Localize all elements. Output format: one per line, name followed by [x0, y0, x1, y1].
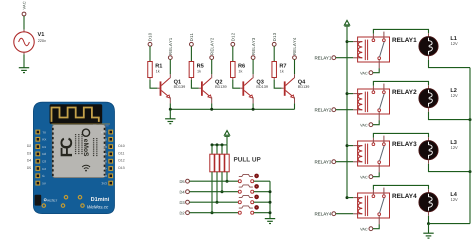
svg-text:BD139: BD139 [215, 85, 227, 89]
wire [189, 191, 238, 193]
junction [269, 190, 272, 193]
junction [346, 40, 349, 43]
svg-text:VAC: VAC [360, 123, 368, 127]
junction [469, 118, 472, 121]
junction [269, 211, 272, 214]
svg-text:D2: D2 [27, 144, 31, 148]
ground [19, 68, 29, 73]
wire collector [211, 60, 213, 75]
junction [169, 108, 172, 111]
wire [23, 54, 25, 67]
svg-text:VAC: VAC [360, 71, 368, 75]
svg-text:D13: D13 [272, 32, 277, 41]
wire [373, 172, 379, 176]
wire emitter [294, 103, 296, 109]
lamp L2 12V [419, 85, 458, 112]
wire [216, 172, 218, 202]
wire 12V bus [346, 27, 348, 198]
wire lamp return [429, 112, 471, 120]
power +V [224, 131, 229, 137]
lamp L1 12V [419, 33, 458, 60]
wire [254, 201, 270, 203]
svg-text:D3: D3 [42, 160, 46, 164]
wire [373, 68, 379, 72]
node RELAY1 terminal [168, 37, 173, 59]
svg-text:A0: A0 [103, 138, 107, 142]
resistor pack PULL UP [210, 145, 262, 172]
svg-text:RELAY1: RELAY1 [392, 37, 417, 44]
resistor R7 1k [272, 62, 287, 80]
svg-text:WeMos.cc: WeMos.cc [87, 204, 109, 209]
svg-text:D10: D10 [118, 144, 124, 148]
junction [469, 170, 472, 173]
wire coil+ [347, 145, 353, 147]
svg-text:D0: D0 [103, 145, 107, 149]
node D5 terminal [179, 179, 189, 184]
node D12 terminal [230, 32, 235, 46]
svg-text:1k: 1k [197, 70, 201, 74]
svg-text:3V3: 3V3 [101, 181, 107, 185]
junction [221, 190, 224, 193]
svg-text:D11: D11 [189, 33, 194, 42]
wire [429, 223, 471, 225]
junction [211, 211, 214, 214]
push button row D5 [238, 174, 259, 183]
lamp L3 12V [419, 137, 458, 164]
wire coil- [336, 161, 354, 163]
junction [211, 143, 214, 146]
svg-text:D5: D5 [179, 179, 185, 184]
svg-text:D12: D12 [230, 32, 235, 41]
junction [216, 201, 219, 204]
wire [221, 172, 223, 192]
svg-text:12V: 12V [451, 93, 458, 98]
node D4 terminal [179, 189, 189, 194]
junction [216, 143, 219, 146]
wire [226, 137, 228, 145]
wire switch to lamp [373, 29, 428, 33]
svg-text:12V: 12V [451, 41, 458, 46]
wire [149, 46, 151, 61]
wire switch to lamp [373, 81, 428, 85]
svg-text:VAC: VAC [360, 227, 368, 231]
board pin labels left D2-D5 [27, 144, 31, 170]
svg-text:D3: D3 [27, 151, 31, 155]
junction [346, 92, 349, 95]
push button row D3 [238, 195, 259, 204]
svg-text:BD139: BD139 [298, 85, 310, 89]
junction [252, 108, 255, 111]
node RELAY2 terminal [209, 37, 214, 59]
ground [265, 219, 275, 224]
svg-text:12V: 12V [451, 197, 458, 202]
svg-text:R1: R1 [155, 63, 162, 69]
resistor R1 1k [148, 62, 163, 80]
wire [254, 191, 270, 193]
svg-text:PULL UP: PULL UP [234, 156, 262, 163]
relay RELAY4 [353, 188, 417, 225]
node D3 terminal [179, 200, 189, 205]
wire switch to lamp [373, 185, 428, 189]
node RELAY2 terminal [314, 107, 335, 112]
svg-text:D2: D2 [42, 152, 46, 156]
svg-text:12V: 12V [451, 145, 458, 150]
svg-text:RELAY3: RELAY3 [251, 37, 256, 55]
svg-text:220v: 220v [38, 39, 46, 43]
svg-text:D4: D4 [27, 159, 31, 163]
svg-text:RELAY3: RELAY3 [392, 141, 417, 148]
junction [346, 196, 349, 199]
wire coil+ [347, 197, 353, 199]
wire coil- [336, 109, 354, 111]
svg-text:RX: RX [42, 138, 46, 142]
svg-text:RELAY2: RELAY2 [392, 89, 417, 96]
svg-text:D5: D5 [27, 166, 31, 170]
svg-text:RELAY1: RELAY1 [168, 37, 173, 55]
push button row D4 [238, 184, 259, 193]
node D13 terminal [272, 32, 277, 46]
ground [165, 119, 175, 124]
junction [346, 144, 349, 147]
node VAC terminal [360, 71, 373, 76]
wire [373, 224, 379, 228]
wire button bus [269, 181, 271, 218]
wire [189, 180, 238, 182]
svg-text:D8: D8 [103, 174, 107, 178]
svg-text:D7: D7 [103, 167, 107, 171]
svg-text:D3: D3 [179, 200, 185, 205]
svg-text:R7: R7 [279, 63, 286, 69]
wire base [150, 80, 157, 88]
wire [273, 46, 275, 61]
wire collector [294, 60, 296, 75]
push button row D2 [238, 205, 259, 214]
resistor R6 1k [231, 62, 246, 80]
junction [210, 108, 213, 111]
wire [169, 109, 171, 118]
svg-text:RELAY4: RELAY4 [292, 37, 297, 55]
svg-text:V1: V1 [38, 32, 45, 38]
wire [232, 46, 234, 61]
node D11 terminal [189, 33, 194, 47]
svg-text:D1: D1 [42, 145, 46, 149]
node RELAY3 terminal [314, 159, 335, 164]
wire base [274, 80, 281, 88]
svg-text:BD139: BD139 [174, 85, 186, 89]
wire [189, 212, 238, 214]
svg-text:RELAY4: RELAY4 [314, 211, 331, 216]
svg-text:RELAY1: RELAY1 [314, 55, 331, 60]
node RELAY4 terminal [314, 211, 335, 216]
svg-text:D4: D4 [179, 189, 185, 194]
svg-text:TX: TX [42, 130, 46, 134]
wire lamp return [429, 60, 471, 68]
svg-text:1k: 1k [156, 70, 160, 74]
wire emitter rail [170, 108, 294, 110]
wire coil+ [347, 93, 353, 95]
wire pullup tie [212, 144, 227, 146]
transistor Q1 BD139 [157, 74, 185, 103]
svg-text:D11: D11 [118, 151, 124, 155]
relay RELAY1 [353, 32, 417, 69]
svg-text:R6: R6 [238, 63, 245, 69]
wire [226, 172, 228, 181]
wire emitter [252, 103, 254, 109]
svg-text:FC: FC [58, 137, 76, 157]
WeMos D1 mini module board [33, 102, 114, 213]
wire base [233, 80, 240, 88]
wire collector [252, 60, 254, 75]
wire emitter [211, 103, 213, 109]
wire switch to lamp [373, 133, 428, 137]
wire lamp return [429, 164, 471, 172]
node D2 terminal [179, 210, 189, 215]
relay RELAY3 [353, 136, 417, 173]
wire emitter [169, 103, 171, 109]
svg-text:VAC: VAC [23, 1, 27, 9]
svg-text:D5: D5 [103, 152, 107, 156]
wire lamp return [428, 216, 430, 224]
junction [221, 143, 224, 146]
svg-text:D4: D4 [42, 167, 46, 171]
svg-text:D10: D10 [148, 32, 153, 41]
wire [254, 180, 270, 182]
wire [428, 224, 430, 233]
junction [226, 180, 229, 183]
relay RELAY2 [353, 84, 417, 121]
wire base [191, 80, 198, 88]
svg-text:1k: 1k [280, 70, 284, 74]
transistor Q3 BD139 [240, 74, 268, 103]
wire [254, 212, 270, 214]
svg-text:D6: D6 [103, 160, 107, 164]
junction [269, 201, 272, 204]
svg-text:BD139: BD139 [256, 85, 268, 89]
node D10 terminal [148, 32, 153, 46]
svg-text:RELAY2: RELAY2 [209, 37, 214, 55]
board pin labels right D10-D13 [118, 144, 124, 170]
svg-text:VAC: VAC [360, 175, 368, 179]
svg-text:5V: 5V [42, 181, 46, 185]
wire [373, 120, 379, 124]
ground [423, 233, 433, 238]
svg-text:R5: R5 [197, 63, 204, 69]
node VAC terminal top-left [22, 1, 27, 16]
svg-text:RST: RST [101, 130, 107, 134]
svg-text:RELAY3: RELAY3 [314, 159, 331, 164]
node RELAY3 terminal [251, 37, 256, 59]
wire collector [169, 60, 171, 75]
transistor Q2 BD139 [199, 74, 227, 103]
resistor R5 1k [189, 62, 204, 80]
node VAC terminal [360, 175, 373, 180]
lamp L4 12V [419, 189, 458, 216]
svg-text:D12: D12 [118, 159, 124, 163]
svg-text:RESET: RESET [47, 198, 57, 202]
svg-text:RELAY4: RELAY4 [392, 193, 417, 200]
wire [23, 16, 25, 30]
node VAC terminal [360, 227, 373, 232]
wire lamp return bus [469, 68, 471, 224]
wire coil- [336, 213, 354, 215]
node RELAY1 terminal [314, 55, 335, 60]
wire [190, 46, 192, 61]
svg-text:D1mini: D1mini [91, 196, 110, 203]
node VAC terminal [360, 123, 373, 128]
power +12V bus arrow [344, 20, 349, 26]
AC source V1 220v [14, 30, 46, 55]
wire [189, 201, 238, 203]
svg-text:D13: D13 [118, 166, 124, 170]
svg-text:RELAY2: RELAY2 [314, 107, 331, 112]
wire coil- [336, 57, 354, 59]
junction [427, 222, 430, 225]
node RELAY4 terminal [292, 37, 297, 59]
svg-text:1k: 1k [238, 70, 242, 74]
svg-text:eMoS: eMoS [82, 139, 89, 157]
wire coil+ [347, 41, 353, 43]
wire [211, 172, 213, 213]
svg-text:D2: D2 [179, 210, 185, 215]
transistor Q4 BD139 [282, 74, 310, 103]
